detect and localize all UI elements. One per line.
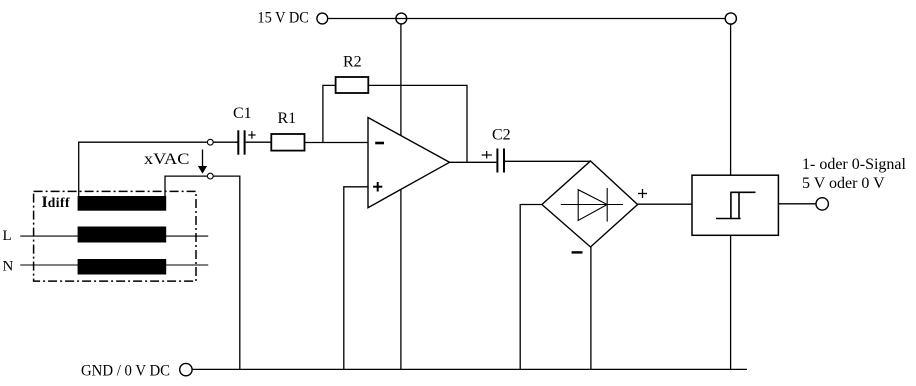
arrow xVAC	[202, 150, 204, 167]
svg-text:C1: C1	[233, 105, 252, 122]
wire schmitt output	[778, 203, 816, 205]
capacitor C2	[496, 149, 498, 173]
svg-text:xVAC: xVAC	[144, 151, 189, 168]
label bridge plus	[638, 193, 647, 195]
node junction right end of 15V rail	[725, 13, 736, 24]
wire op-amp V- pin to ground	[400, 189, 402, 369]
wire op-amp non-inverting input to ground	[344, 187, 368, 370]
resistor R1	[271, 134, 304, 151]
resistor R2	[336, 77, 369, 93]
svg-text:Idiff: Idiff	[42, 194, 70, 211]
svg-text:C2: C2	[492, 127, 511, 144]
wire schmitt ground pin	[730, 235, 732, 369]
svg-text:GND / 0 V DC: GND / 0 V DC	[81, 363, 170, 380]
terminal GND	[180, 363, 192, 375]
wire R2 left lead to inverting input node	[323, 85, 336, 142]
wire L line	[20, 235, 208, 237]
terminal output signal	[816, 198, 828, 210]
wire bridge bottom vertex to ground	[590, 247, 592, 369]
wire N line	[20, 264, 208, 266]
wire ground rail	[192, 368, 747, 370]
wire bridge output to schmitt	[638, 203, 692, 205]
schmitt trigger U2	[692, 175, 778, 235]
wire C1 to R1	[246, 141, 272, 143]
wire R2 right lead to output node	[368, 85, 467, 162]
svg-text:1- oder 0-Signal: 1- oder 0-Signal	[802, 156, 907, 173]
wire Idiff winding left lead to upper terminal	[79, 142, 208, 196]
wire Idiff winding right lead to lower terminal	[165, 176, 207, 196]
node junction on 15V rail	[396, 13, 407, 24]
wire bridge left vertex to ground	[520, 205, 542, 370]
svg-text:L: L	[3, 228, 12, 244]
label op-amp plus	[373, 186, 382, 188]
wire C2 to bridge	[505, 160, 591, 162]
wire op-amp V+ supply	[400, 24, 402, 136]
bridge rectifier diamond	[542, 161, 638, 247]
diode inside bridge	[561, 204, 623, 206]
svg-text:5 V oder 0 V: 5 V oder 0 V	[802, 175, 885, 192]
op-amp U1	[368, 118, 450, 208]
label op-amp minus	[375, 142, 384, 145]
terminal upper xVAC	[207, 139, 213, 145]
wire R1 to op-amp inverting input	[304, 142, 368, 144]
schmitt hysteresis symbol	[716, 218, 741, 220]
svg-text:15 V DC: 15 V DC	[257, 10, 309, 27]
terminal 15V DC	[317, 13, 328, 24]
transformer dash-dot enclosure	[34, 191, 196, 281]
label bridge minus	[572, 251, 583, 253]
winding bar L	[78, 227, 167, 243]
wire schmitt V+ supply	[730, 24, 732, 175]
svg-text:N: N	[3, 259, 14, 275]
label C1 plus	[248, 134, 255, 136]
terminal lower xVAC	[207, 173, 213, 179]
wire 15V rail	[328, 18, 725, 20]
svg-text:R1: R1	[278, 110, 297, 127]
wire upper terminal to C1	[213, 141, 237, 143]
label C2 plus	[482, 154, 492, 156]
winding bar N	[78, 259, 167, 275]
svg-text:R2: R2	[343, 54, 362, 71]
wire lower terminal to ground rail	[213, 176, 240, 369]
winding bar Idiff	[78, 196, 167, 211]
wire op-amp output	[450, 161, 497, 163]
capacitor C1	[237, 130, 239, 154]
